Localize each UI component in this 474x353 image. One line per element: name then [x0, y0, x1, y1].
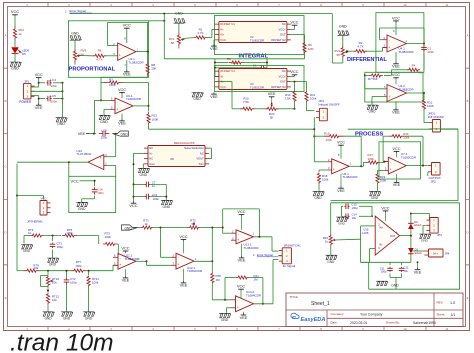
- capacitor C11 100p: [389, 262, 391, 265]
- svg-text:200n: 200n: [428, 50, 435, 54]
- resistor RT12 10k: [47, 287, 49, 293]
- svg-text:VCC: VCC: [123, 23, 131, 28]
- wire: [94, 196, 96, 199]
- resistor R8 10K: [147, 52, 149, 62]
- wire: [39, 270, 71, 272]
- svg-text:10K: 10K: [151, 67, 156, 71]
- svg-text:TL071BCD: TL071BCD: [77, 152, 93, 156]
- svg-text:VCC-: VCC-: [220, 38, 227, 42]
- op-amp U1.1 TL082CDR: [118, 43, 136, 60]
- svg-text:VEE: VEE: [210, 46, 218, 51]
- wire: [389, 274, 391, 278]
- svg-text:Sheet:: Sheet:: [437, 313, 446, 317]
- ground (driver caps left): [336, 217, 348, 221]
- svg-text:-: -: [238, 232, 239, 236]
- svg-text:4.7K: 4.7K: [197, 31, 203, 35]
- capacitor C15 100p: [344, 205, 346, 207]
- svg-text:OUT: OUT: [280, 33, 286, 37]
- svg-text:VCC: VCC: [290, 69, 298, 74]
- wire: [331, 14, 333, 63]
- svg-text:Drawn By:: Drawn By:: [386, 320, 400, 324]
- svg-text:-: -: [119, 46, 120, 50]
- wire: [400, 235, 411, 237]
- capacitor LC8 100n: [99, 133, 103, 135]
- wire: [359, 205, 372, 207]
- section box driver: [331, 202, 460, 204]
- svg-text:GND: GND: [338, 222, 346, 226]
- svg-text:GND: GND: [163, 205, 171, 209]
- svg-text:VCC: VCC: [71, 178, 79, 183]
- ground (CT1): [52, 250, 54, 259]
- wire: [14, 41, 16, 48]
- svg-text:GND: GND: [339, 25, 347, 29]
- ground (CT2): [66, 285, 68, 312]
- svg-text:OUT: OUT: [280, 80, 286, 84]
- svg-text:VCC: VCC: [118, 87, 126, 92]
- svg-text:10k: 10k: [52, 298, 57, 302]
- ground (R18): [318, 184, 320, 191]
- op-amp U7.2 TL082CDR: [388, 157, 406, 174]
- svg-text:-: -: [389, 38, 390, 42]
- svg-text:100n: 100n: [51, 100, 58, 104]
- svg-text:Er Signal: Er Signal: [283, 264, 296, 268]
- resistor R16 100k: [389, 135, 404, 138]
- potentiometer RT10 10k: [47, 271, 49, 275]
- svg-text:10k: 10k: [52, 281, 57, 285]
- wire: [107, 164, 116, 166]
- resistor R6 4.7K: [93, 54, 106, 57]
- resistor RT4 1k: [24, 235, 30, 237]
- wire: [380, 161, 385, 163]
- resistor R1 4.7K: [195, 36, 207, 39]
- svg-text:GND: GND: [193, 97, 201, 101]
- power flag VEE (U12.1): [183, 269, 185, 282]
- svg-text:Your Company: Your Company: [360, 312, 383, 316]
- svg-text:GND: GND: [368, 110, 376, 114]
- svg-text:Company:: Company:: [331, 312, 345, 316]
- svg-text:GND: GND: [221, 318, 229, 322]
- svg-text:R7 50K: R7 50K: [368, 77, 378, 81]
- resistor R11 100k: [305, 91, 308, 102]
- svg-text:-: -: [333, 161, 334, 165]
- resistor R4 1K: [423, 53, 425, 70]
- svg-text:+: +: [237, 238, 239, 242]
- op-amp U3 TL081CDR (IC symbol): [219, 69, 287, 90]
- power flag VEE (JP1): [38, 103, 40, 105]
- section box U7.2: [379, 142, 421, 179]
- connector JP2 OUTPUT: [432, 163, 441, 176]
- op-amp U9.2 TL084CDR: [115, 98, 133, 114]
- wire: [383, 135, 389, 137]
- wire summing bus: [148, 125, 150, 129]
- wire: [427, 172, 429, 176]
- wire: [342, 35, 344, 45]
- wire: [361, 261, 411, 263]
- svg-text:OFFSET N1: OFFSET N1: [220, 69, 235, 73]
- svg-text:TL082CDR: TL082CDR: [399, 50, 415, 54]
- wire: [209, 147, 212, 149]
- svg-text:M-+: M-+: [433, 251, 438, 255]
- wire: [78, 55, 80, 57]
- wire: [31, 86, 39, 88]
- svg-text:IN-: IN-: [379, 243, 383, 247]
- svg-text:LC8: LC8: [101, 128, 107, 132]
- ground (RV5): [330, 246, 332, 255]
- svg-text:-: -: [390, 160, 391, 164]
- net flag GND (setpoint row): [122, 225, 138, 230]
- svg-text:+: +: [390, 167, 392, 171]
- svg-text:NC: NC: [149, 146, 153, 150]
- svg-text:+: +: [116, 107, 118, 111]
- svg-text:100k: 100k: [105, 235, 112, 239]
- svg-text:L165: L165: [362, 231, 369, 235]
- svg-text:1/1: 1/1: [451, 313, 456, 317]
- wire: [44, 235, 61, 237]
- ground (U7.2 +input): [369, 191, 381, 195]
- svg-text:TL084CDR: TL084CDR: [246, 294, 262, 298]
- wire: [31, 95, 39, 97]
- resistor RT1 1k: [138, 227, 141, 229]
- svg-text:C: C: [4, 165, 6, 169]
- resistor RT11 100k: [88, 271, 90, 275]
- svg-text:GND: GND: [140, 173, 148, 177]
- wire: [74, 62, 76, 65]
- svg-text:+: +: [100, 156, 102, 160]
- svg-text:VCC: VCC: [179, 234, 187, 239]
- svg-text:Trim: Trim: [199, 162, 205, 166]
- power flag VEE (driver): [417, 262, 419, 268]
- svg-text:JPTHERM1: JPTHERM1: [27, 220, 43, 224]
- power flag VEE (U7.2): [396, 174, 398, 181]
- svg-text:7.5K: 7.5K: [285, 97, 291, 101]
- svg-text:VCC: VCC: [392, 146, 400, 151]
- svg-text:Sheet_1: Sheet_1: [311, 301, 330, 307]
- wire: [178, 23, 180, 33]
- op-amp U11.2 TL084CDR: [118, 253, 136, 269]
- svg-text:1M: 1M: [216, 278, 221, 282]
- svg-text:100k: 100k: [75, 264, 82, 268]
- capacitor LC9 100n: [133, 196, 135, 198]
- svg-text:TL082CDR: TL082CDR: [129, 61, 145, 65]
- EasyEDA logo: [291, 313, 299, 318]
- op-amp U14.2 TL084CDR: [236, 296, 254, 312]
- resistor R14 7.5K: [293, 91, 296, 102]
- svg-text:VCC: VCC: [392, 72, 400, 77]
- svg-text:VEE: VEE: [123, 72, 131, 77]
- svg-text:Integral ON/OFF: Integral ON/OFF: [318, 102, 340, 106]
- svg-text:100k: 100k: [92, 281, 99, 285]
- resistor R5 100K: [215, 62, 228, 64]
- wire: [16, 164, 18, 271]
- power flag VEE (U6.1): [340, 174, 342, 187]
- op-amp U6.1 TL082CDR: [332, 159, 350, 174]
- svg-text:Error Signal: Error Signal: [70, 9, 87, 13]
- wire: [304, 53, 306, 59]
- svg-text:GND: GND: [44, 316, 52, 320]
- power flag VEE (U1.1): [126, 60, 128, 70]
- svg-text:100p: 100p: [70, 281, 77, 285]
- svg-text:GND: GND: [421, 239, 429, 243]
- svg-text:VEE: VEE: [414, 270, 422, 275]
- svg-text:TL082CDR: TL082CDR: [343, 175, 359, 179]
- svg-text:5K: 5K: [337, 53, 341, 57]
- svg-text:VCC: VCC: [121, 245, 129, 250]
- svg-text:VEE: VEE: [240, 315, 248, 320]
- wire: [345, 50, 347, 53]
- resistor R18 100k: [319, 169, 327, 171]
- ground (decoupling): [161, 200, 173, 204]
- svg-text:+: +: [237, 305, 239, 309]
- resistor R13 100K: [148, 106, 150, 112]
- wire: [136, 51, 148, 53]
- svg-text:Date:: Date:: [331, 320, 338, 324]
- potentiometer RV5 1k: [329, 234, 332, 246]
- svg-text:VCC: VCC: [129, 203, 137, 208]
- wire: [211, 284, 213, 300]
- svg-text:100n: 100n: [153, 197, 160, 201]
- power flag VEE (U13.1): [241, 244, 243, 257]
- ground (U4.2 +input): [367, 105, 379, 109]
- svg-text:GND: GND: [11, 67, 19, 71]
- svg-text:VCC+: VCC+: [278, 27, 286, 31]
- svg-text:VEE: VEE: [392, 110, 400, 115]
- op-amp U4.2 TL082CDR: [387, 85, 407, 102]
- svg-text:4.7K: 4.7K: [357, 45, 363, 49]
- wire: [124, 82, 149, 84]
- svg-text:GND: GND: [391, 284, 399, 288]
- svg-text:R3: R3: [109, 77, 113, 81]
- wire: [101, 82, 104, 84]
- wire: [423, 110, 425, 123]
- capacitor C1 200n: [423, 45, 425, 47]
- svg-text:GND: GND: [71, 31, 79, 35]
- wire: [17, 270, 24, 272]
- svg-text:1M: 1M: [254, 277, 259, 281]
- wire: [134, 152, 145, 154]
- svg-text:VEE: VEE: [392, 64, 400, 69]
- wire: [291, 34, 305, 36]
- power flag VCC (decoupling): [133, 201, 135, 203]
- wire: [201, 227, 223, 229]
- wire: [106, 55, 118, 57]
- svg-text:PROCESS: PROCESS: [355, 132, 383, 138]
- svg-text:100n: 100n: [51, 84, 58, 88]
- wire U1.1 feedback: [108, 45, 118, 47]
- power flag VEE (U9.2): [121, 114, 123, 120]
- power flag VEE (U14.2): [243, 312, 245, 314]
- wire: [107, 156, 116, 158]
- wire: [378, 169, 385, 171]
- svg-text:100n: 100n: [97, 191, 104, 195]
- svg-text:20k: 20k: [34, 266, 39, 270]
- svg-text:1k: 1k: [19, 32, 23, 36]
- wire: [359, 215, 372, 217]
- wire: [380, 39, 383, 41]
- wire: [150, 183, 167, 185]
- wire: [372, 96, 387, 98]
- svg-text:DIFFERENTIAL: DIFFERENTIAL: [347, 57, 387, 63]
- resistor R10 7.5K: [232, 108, 240, 110]
- section box PROCESS: [331, 129, 459, 200]
- svg-text:+: +: [388, 95, 390, 99]
- svg-text:JP2: JP2: [431, 180, 437, 184]
- wire: [163, 14, 165, 59]
- wire: [95, 99, 111, 101]
- svg-text:GND: GND: [175, 12, 183, 16]
- svg-text:NC: NC: [149, 157, 153, 161]
- ground (U9.2 +input): [99, 115, 111, 119]
- svg-text:-: -: [178, 256, 179, 260]
- wire: [306, 102, 308, 111]
- svg-text:U8: U8: [170, 157, 174, 161]
- svg-text:100k: 100k: [380, 179, 387, 183]
- wire: [330, 203, 332, 234]
- capacitor CT1 100p: [52, 236, 54, 242]
- svg-text:TL084CDR: TL084CDR: [126, 97, 142, 101]
- svg-text:VCC: VCC: [337, 140, 345, 145]
- wire: [227, 307, 231, 309]
- svg-text:B: B: [467, 99, 469, 103]
- wire: [333, 238, 360, 241]
- ground (U3): [192, 93, 204, 97]
- svg-text:VCC: VCC: [35, 72, 43, 77]
- resistor R2 4.7K: [354, 50, 367, 53]
- LED D6: [12, 48, 19, 54]
- svg-text:ES2A: ES2A: [414, 223, 421, 227]
- ground (driver box): [376, 281, 388, 285]
- wire: [178, 46, 180, 49]
- svg-text:D6: D6: [22, 52, 26, 56]
- wire: [31, 90, 63, 92]
- section box sensor bias: [69, 176, 116, 212]
- diode D2 ES2A: [408, 224, 414, 229]
- svg-text:VCC: VCC: [237, 284, 245, 289]
- svg-text:100K: 100K: [152, 118, 159, 122]
- svg-text:Noise Reduction: Noise Reduction: [184, 146, 204, 150]
- svg-text:VCC+: VCC+: [278, 74, 286, 78]
- capacitor CT2 100p: [66, 271, 68, 277]
- svg-text:VCC-: VCC-: [220, 85, 227, 89]
- svg-text:100K: 100K: [427, 104, 434, 108]
- wire: [429, 128, 458, 130]
- wire: [154, 227, 189, 229]
- ground (RT12): [47, 304, 49, 312]
- svg-text:GND: GND: [327, 260, 335, 264]
- section box INTEGRAL stage1: [215, 16, 305, 55]
- power flag VEE (U2): [214, 39, 215, 41]
- wire: [74, 40, 76, 49]
- svg-text:VOUT: VOUT: [196, 157, 204, 161]
- svg-text:+: +: [177, 263, 179, 267]
- op-amp U12.1 TL084CDR: [176, 253, 194, 269]
- svg-text:+: +: [333, 168, 335, 172]
- svg-text:E: E: [467, 296, 469, 300]
- section box DIFFERENTIAL stage2: [365, 72, 423, 102]
- wire: [411, 213, 430, 215]
- resistor R12 100K: [423, 93, 425, 99]
- resistor R19 100k: [376, 173, 379, 184]
- svg-text:Error Signal: Error Signal: [257, 253, 273, 257]
- wire: [136, 260, 147, 262]
- wire: [423, 28, 425, 44]
- svg-text:Sakeenah1994: Sakeenah1994: [413, 321, 436, 325]
- svg-text:REV:: REV:: [437, 300, 444, 304]
- svg-text:PROPORTIONAL: PROPORTIONAL: [69, 66, 116, 72]
- ground (RV1 top): [174, 19, 186, 23]
- svg-text:2020-03-01: 2020-03-01: [350, 321, 367, 325]
- resistor R15 100k: [314, 135, 324, 137]
- wire: [313, 129, 315, 162]
- wire: [404, 135, 423, 137]
- wire: [41, 275, 49, 277]
- wire: [104, 108, 110, 110]
- svg-text:LC4: LC4: [51, 78, 57, 82]
- svg-text:A: A: [5, 34, 7, 38]
- svg-text:JP3: JP3: [437, 233, 442, 237]
- wire: [94, 100, 96, 133]
- power flag VEE (U4.1): [395, 52, 397, 62]
- ground (U14.2 +input): [219, 313, 231, 317]
- wire: [266, 59, 268, 68]
- wire: [14, 16, 16, 27]
- svg-text:VCC: VCC: [392, 15, 400, 20]
- resistor RT7 100k: [71, 269, 86, 272]
- wire: [254, 236, 273, 238]
- svg-text:GND: GND: [63, 316, 71, 320]
- svg-text:R15: R15: [324, 132, 330, 136]
- svg-text:VCC: VCC: [237, 209, 245, 214]
- svg-text:POWER: POWER: [19, 100, 32, 104]
- svg-text:JP1: JP1: [24, 80, 29, 84]
- wire: [211, 228, 213, 262]
- wire: [68, 162, 70, 176]
- svg-text:NC: NC: [282, 69, 286, 73]
- resistor RT8 1M: [211, 261, 213, 272]
- svg-text:GND: GND: [85, 316, 93, 320]
- ground (LED branch): [10, 62, 22, 66]
- connector JP1 POWER: [23, 84, 31, 99]
- wire: [38, 78, 40, 87]
- svg-text:OFFSET N2: OFFSET N2: [271, 38, 286, 42]
- wire: [146, 261, 148, 265]
- svg-text:B: B: [5, 99, 7, 103]
- svg-text:R6: R6: [98, 49, 102, 53]
- svg-text:1u: 1u: [152, 184, 156, 188]
- wire: [182, 39, 184, 40]
- wire: [90, 133, 97, 135]
- ground (RT11): [88, 287, 90, 312]
- wire: [406, 165, 428, 167]
- svg-text:-: -: [389, 87, 390, 91]
- svg-text:GND: GND: [57, 122, 65, 126]
- wire: [349, 165, 361, 167]
- svg-text:10: 10: [403, 327, 407, 331]
- svg-text:IN+: IN+: [379, 226, 384, 230]
- op-amp U4.1 TL082CDR: [387, 35, 407, 52]
- svg-text:100K: 100K: [109, 83, 116, 87]
- ground (JP1 filter): [56, 118, 68, 122]
- wire: [361, 165, 363, 167]
- potentiometer RV2 5K: [341, 46, 344, 59]
- svg-text:+: +: [119, 263, 121, 267]
- svg-text:OUT: OUT: [390, 234, 396, 238]
- wire: [249, 277, 263, 279]
- wire: [344, 135, 361, 137]
- svg-text:100k: 100k: [326, 138, 333, 142]
- svg-text:5K: 5K: [171, 41, 175, 45]
- wire: [94, 181, 96, 186]
- resistor RT9 20k: [24, 269, 39, 272]
